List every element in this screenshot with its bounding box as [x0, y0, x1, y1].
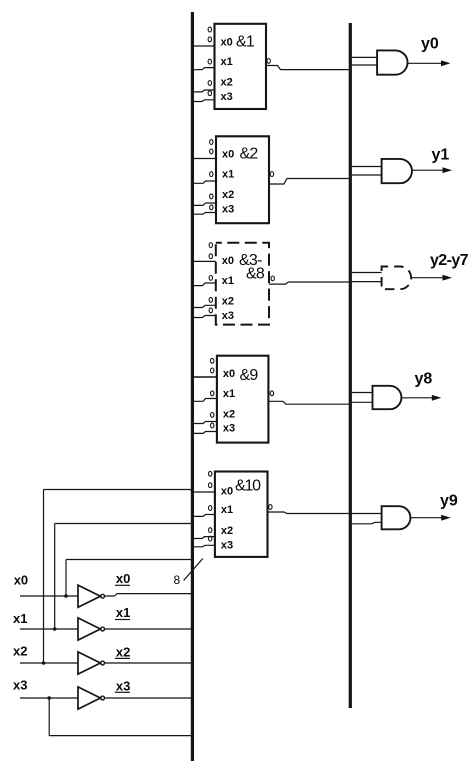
- U5 pin x2 polarity mark: [209, 528, 212, 533]
- svg-text:x3: x3: [222, 310, 234, 322]
- U2 pin x0 polarity mark: [210, 149, 213, 154]
- U4 pin x2 polarity mark: [211, 413, 214, 418]
- G3 output wire: [412, 277, 445, 279]
- svg-text:x1: x1: [116, 605, 130, 620]
- input wire x2: [20, 662, 78, 664]
- G5 output arrowhead: [441, 515, 451, 521]
- node on x3 input: [47, 696, 51, 700]
- wire U1 output to right bus: [266, 66, 350, 70]
- svg-text:y2-y7: y2-y7: [430, 252, 469, 269]
- wire bus to G1 input a: [352, 56, 377, 58]
- wire U4 output to right bus: [268, 401, 350, 404]
- svg-text:x1: x1: [221, 504, 233, 516]
- svg-text:8: 8: [174, 573, 181, 587]
- svg-text:x2: x2: [116, 644, 130, 659]
- wire bus to U5 pin x3: [192, 545, 215, 547]
- AND block U3 (&3-&8, dashed group) body: [216, 243, 269, 325]
- wire bus to U3 pin x3: [192, 316, 215, 318]
- svg-text:x1: x1: [13, 611, 27, 626]
- U3 top polarity mark: [209, 243, 212, 248]
- svg-text:x0: x0: [222, 149, 234, 161]
- bus width slash: [184, 559, 203, 581]
- G4 output arrowhead: [432, 395, 442, 401]
- svg-text:x0: x0: [221, 36, 233, 48]
- G2 output arrowhead: [443, 167, 453, 173]
- svg-text:x0: x0: [14, 573, 28, 588]
- left bus (8-wire trunk): [191, 12, 194, 761]
- AND gate G2 (y1) body: [382, 159, 412, 183]
- wire V3 output to bus: [105, 662, 193, 664]
- wire bus to U4 pin x3: [192, 432, 217, 434]
- wire bus to G1 input b: [352, 64, 377, 66]
- wire bus to U5 pin x1: [192, 515, 215, 517]
- wire U2 output to right bus: [269, 179, 350, 185]
- wire bus to U3 pin x1: [192, 283, 215, 286]
- AND block U2 (&2) body: [216, 136, 269, 223]
- wire bus to U4 pin x2: [192, 422, 217, 424]
- node on x2 input: [42, 661, 46, 665]
- AND gate G3 (y2-y7, dashed) body: [382, 267, 412, 290]
- node on x1 input: [53, 627, 57, 631]
- svg-text:x2: x2: [222, 189, 234, 201]
- x2 tap vertical: [43, 490, 45, 664]
- wire bus to U5 pin x2: [192, 537, 215, 539]
- x0 tap horizontal to bus: [66, 559, 192, 561]
- U4 output polarity mark: [270, 391, 273, 396]
- wire bus to U1 pin x3: [192, 100, 214, 102]
- svg-text:x3: x3: [116, 679, 130, 694]
- wire bus to U1 pin x2: [192, 90, 214, 92]
- svg-text:x3: x3: [221, 539, 233, 551]
- U5 pin x0 polarity mark: [209, 483, 212, 488]
- G3 output arrowhead: [443, 275, 453, 281]
- wire bus to U2 pin x0: [192, 158, 216, 160]
- svg-text:x2: x2: [223, 408, 235, 420]
- wire V2 output to bus: [105, 628, 193, 630]
- wire bus to G2 input b: [352, 174, 382, 176]
- inverter V2 bubble: [101, 627, 105, 631]
- svg-text:x1: x1: [223, 388, 235, 400]
- svg-text:x3: x3: [222, 203, 234, 215]
- underline of complement x1: [115, 619, 130, 621]
- AND block U5 (&10) body: [215, 472, 268, 557]
- wire U3 output to right bus: [269, 282, 350, 284]
- U1 pin x2 polarity mark: [208, 81, 211, 86]
- svg-text:x3: x3: [223, 423, 235, 435]
- U1 top polarity mark: [208, 27, 211, 32]
- U5 pin x1 polarity mark: [209, 506, 212, 511]
- svg-text:x2: x2: [221, 76, 233, 88]
- inverter V4 body: [78, 687, 100, 709]
- U5 pin x3 polarity mark: [209, 536, 212, 541]
- svg-text:x1: x1: [221, 56, 233, 68]
- x1 tap vertical: [54, 524, 56, 630]
- svg-text:x0: x0: [116, 571, 130, 586]
- G5 output wire: [411, 517, 444, 519]
- U3 pin x1 polarity mark: [209, 276, 212, 281]
- svg-text:x1: x1: [222, 275, 234, 287]
- svg-text:&8: &8: [246, 265, 265, 282]
- x3 tap bottom horizontal to bus: [49, 735, 192, 737]
- svg-text:y9: y9: [440, 493, 458, 510]
- svg-text:y1: y1: [432, 147, 450, 164]
- U3 output polarity mark: [271, 276, 274, 281]
- wire bus to U2 pin x3: [192, 213, 216, 215]
- svg-text:y8: y8: [415, 370, 433, 387]
- inverter V2 body: [78, 618, 100, 640]
- U4 pin x3 polarity mark: [211, 423, 214, 428]
- AND gate G5 (y9) body: [382, 506, 411, 529]
- inverter V1 body: [78, 585, 100, 607]
- underline of complement x0: [115, 584, 130, 586]
- wire bus to G3 input a: [352, 272, 382, 274]
- wire U5 output through right bus to gate G5: [268, 512, 382, 514]
- wire bus to G4 input a: [352, 392, 373, 394]
- U5 output polarity mark: [269, 505, 272, 510]
- inverter V3 body: [78, 652, 100, 674]
- inverter V1 bubble: [101, 594, 105, 598]
- G4 output wire: [401, 397, 434, 399]
- wire bus to U3 pin x0: [192, 260, 215, 262]
- U2 pin x1 polarity mark: [210, 172, 213, 177]
- wire bus to U4 pin x0: [192, 376, 217, 378]
- wire bus to G4 input b: [352, 401, 373, 403]
- svg-text:y0: y0: [421, 35, 439, 52]
- U5 top polarity mark: [209, 471, 212, 476]
- wire bus to U4 pin x1: [192, 399, 217, 402]
- svg-text:x2: x2: [222, 295, 234, 307]
- U1 pin x3 polarity mark: [208, 91, 211, 96]
- wire bus to U2 pin x2: [192, 203, 216, 205]
- wire bus to U1 pin x1: [192, 68, 214, 70]
- wire x2 tap to U5 pin x0 (crosses left bus): [44, 490, 215, 493]
- U1 pin x1 polarity mark: [208, 59, 211, 64]
- x3 tap vertical down: [48, 698, 50, 736]
- U3 pin x3 polarity mark: [209, 308, 212, 313]
- AND gate G1 (y0) body: [377, 50, 407, 74]
- U4 pin x1 polarity mark: [211, 391, 214, 396]
- wire bus to G5 input b: [352, 522, 382, 524]
- svg-text:x1: x1: [222, 169, 234, 181]
- svg-text:x3: x3: [13, 677, 27, 692]
- underline of complement x2: [115, 657, 130, 659]
- wire V1 output to bus: [105, 594, 193, 596]
- right bus (output trunk): [349, 23, 352, 708]
- input wire x0: [20, 595, 78, 597]
- U1 output polarity mark: [267, 59, 270, 64]
- AND block U1 (&1) body: [215, 24, 267, 109]
- G1 output wire: [408, 62, 444, 64]
- wire bus to U2 pin x1: [192, 181, 216, 183]
- U4 pin x0 polarity mark: [211, 368, 214, 373]
- wire bus to G3 input b: [352, 281, 382, 283]
- U3 pin x2 polarity mark: [209, 297, 212, 302]
- wire bus to G2 input a: [352, 166, 382, 168]
- underline of complement x3: [115, 691, 130, 693]
- input wire x3: [20, 697, 78, 699]
- wire bus to U3 pin x2: [192, 305, 215, 307]
- x0 tap vertical: [65, 560, 67, 597]
- G2 output wire: [412, 169, 445, 171]
- svg-text:x0: x0: [221, 485, 233, 497]
- svg-text:x2: x2: [221, 525, 233, 537]
- svg-text:x2: x2: [13, 643, 27, 658]
- node on x0 input: [64, 594, 68, 598]
- svg-text:&10: &10: [235, 478, 261, 495]
- U2 top polarity mark: [210, 140, 213, 145]
- wire V4 output to bus: [105, 697, 193, 699]
- U3 pin x0 polarity mark: [209, 254, 212, 259]
- x1 tap horizontal to bus: [55, 523, 193, 525]
- svg-text:&2: &2: [240, 146, 259, 163]
- U2 pin x3 polarity mark: [210, 205, 213, 210]
- G1 output arrowhead: [441, 60, 451, 66]
- svg-text:&9: &9: [240, 367, 259, 384]
- svg-text:&1: &1: [236, 34, 255, 51]
- svg-text:x3: x3: [221, 91, 233, 103]
- U2 output polarity mark: [270, 172, 273, 177]
- U1 pin x0 polarity mark: [208, 37, 211, 42]
- inverter V3 bubble: [101, 661, 105, 665]
- svg-text:x0: x0: [223, 368, 235, 380]
- U2 pin x2 polarity mark: [210, 194, 213, 199]
- wire bus to U1 pin x0: [192, 45, 214, 47]
- AND gate G4 (y8) body: [373, 386, 402, 409]
- U4 top polarity mark: [211, 358, 214, 363]
- inverter V4 bubble: [101, 696, 105, 700]
- input wire x1: [20, 628, 78, 630]
- AND block U4 (&9) body: [217, 356, 269, 443]
- svg-text:x0: x0: [222, 255, 234, 267]
